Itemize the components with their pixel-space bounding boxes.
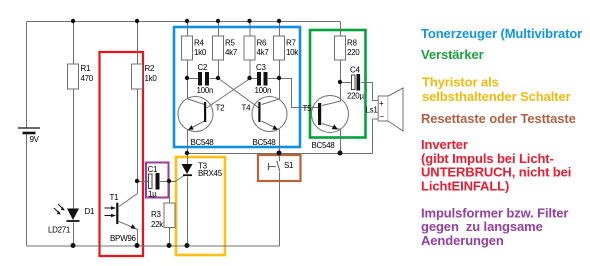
wire battery left branch [26,22,28,128]
wire R5 top [218,22,220,37]
svg-text:T4: T4 [242,104,252,113]
wire T2 emitter [188,121,205,154]
svg-text:selbsthaltender Schalter: selbsthaltender Schalter [422,89,571,104]
wire C1 left lead [138,181,150,183]
svg-text:100n: 100n [197,86,214,95]
wire battery to bottom rail [26,134,28,246]
svg-text:9V: 9V [30,135,40,144]
wire R8 top from rail corner [340,22,342,37]
svg-text:T5: T5 [303,104,313,113]
green highlight box (amplifier) [310,30,366,138]
phototransistor T1 BPW96 [105,193,137,243]
svg-text:220: 220 [347,48,360,57]
svg-text:S1: S1 [284,161,294,170]
svg-text:220µ: 220µ [347,92,364,101]
purple highlight box (pulse filter) [146,163,169,198]
wire T3 gate [170,176,184,182]
wire emitter rail y153 [188,153,373,155]
wire T1 collector [119,182,138,207]
svg-text:R7: R7 [286,39,296,48]
wire T5 emitter [322,124,341,154]
svg-text:BC548: BC548 [191,138,215,147]
red highlight box (light receiver) [100,52,144,256]
wire T3 cathode to bottom rail [187,177,189,247]
svg-text:1µ: 1µ [148,190,157,199]
svg-text:C3: C3 [256,63,266,72]
wire C2 right lead [210,78,219,80]
wire R2 to node C1/T1 [137,90,139,182]
svg-text:D1: D1 [85,207,95,216]
yellow highlight box (thyristor) [176,157,225,255]
svg-text:Thyristor als: Thyristor als [422,75,499,90]
orange highlight box (reset button) [258,155,301,181]
svg-text:4k7: 4k7 [225,48,238,57]
wire R7 top [279,22,281,37]
capacitor C4 220u electrolytic [347,66,364,101]
resistor R4 [182,36,207,60]
svg-text:10k: 10k [286,48,299,57]
svg-text:UNTERBRUCH, nicht bei: UNTERBRUCH, nicht bei [421,165,571,180]
svg-text:+: + [379,99,384,108]
svg-text:T1: T1 [110,193,120,202]
svg-text:R3: R3 [151,210,161,219]
wire bottom rail [27,245,280,247]
wire S1 top stub [279,154,281,162]
svg-text:C1: C1 [148,165,158,174]
resistor R1 [68,64,94,89]
resistor R3 [151,203,175,229]
wire top rail [27,21,341,23]
svg-text:R5: R5 [225,39,235,48]
wire T4 collector to T5 base [280,79,319,108]
wire R8 bottom to C4 node [340,61,342,83]
transistor T5 BC548 [303,96,349,151]
blue highlight box (multivibrator) [174,27,300,147]
svg-text:470: 470 [81,74,94,83]
wire speaker minus [373,119,379,154]
svg-text:R2: R2 [145,64,155,73]
pushbutton S1 [269,161,295,172]
svg-text:C2: C2 [198,63,208,72]
wire R3 top lead [169,182,171,204]
capacitor C3 100n [255,63,272,95]
svg-text:Inverter: Inverter [421,137,468,152]
resistor R7 [274,36,300,60]
svg-text:BPW96: BPW96 [110,234,136,243]
svg-text:R8: R8 [347,39,357,48]
wire C2 left lead [188,78,199,80]
transistor T4 BC548 [242,97,288,148]
svg-text:T2: T2 [216,104,226,113]
wire T2 emitter to thyristor anode [187,154,189,165]
wire R2 top [137,22,139,65]
resistor R6 [244,36,269,60]
svg-text:gegen zu langsame: gegen zu langsame [421,219,543,234]
svg-text:LD271: LD271 [48,226,71,235]
svg-text:LichtEINFALL): LichtEINFALL) [421,178,509,193]
svg-text:R4: R4 [194,39,204,48]
wire R4 bottom to T2 collector node [187,61,189,79]
wire S1 bottom to rail end [279,172,281,246]
LED D1 LD271 [48,204,95,235]
wire R1 to D1 [73,90,75,209]
wire T4 collector [262,79,280,105]
wire T1 emitter [119,222,138,247]
svg-text:Verstärker: Verstärker [421,47,484,62]
wire R7 bottom [279,61,281,79]
svg-text:R1: R1 [81,64,91,73]
wire C4 right lead to speaker plus [361,83,379,101]
wire C3 left lead [250,78,258,80]
wire C3 right lead [268,78,280,80]
battery B1 9V [18,128,40,144]
svg-text:4k7: 4k7 [257,48,270,57]
wire R4 top [187,22,189,37]
svg-text:BC548: BC548 [253,138,277,147]
transistor T2 BC548 [178,97,225,148]
svg-text:100n: 100n [255,86,272,95]
wire C1 right lead to node G [160,181,170,183]
capacitor C2 100n [197,63,214,95]
svg-text:22k: 22k [151,220,164,229]
wire D1 to bottom rail [73,223,75,247]
wire R3 bottom lead [169,228,171,246]
wire cross-coupling to T4 base [219,79,260,109]
svg-text:BC548: BC548 [312,141,336,150]
svg-text:Aenderungen: Aenderungen [421,233,504,248]
svg-text:−: − [380,113,385,122]
wire cross-coupling to T2 base [207,79,251,109]
resistor R5 [213,36,238,60]
wire C4 left lead [341,82,353,84]
svg-text:Resettaste oder Testtaste: Resettaste oder Testtaste [421,111,576,126]
svg-text:1k0: 1k0 [194,48,207,57]
wire R1 top [73,22,75,65]
svg-text:R6: R6 [257,39,267,48]
resistor R2 [132,64,158,89]
thyristor T3 BRX45 [182,162,223,178]
speaker Ls1 [366,88,404,131]
wire R6 top [249,22,251,37]
svg-text:Ls1: Ls1 [366,106,379,115]
resistor R8 [335,36,361,60]
wire T4 emitter [262,121,280,154]
svg-text:1k0: 1k0 [145,74,158,83]
capacitor C1 1u electrolytic [148,165,160,199]
svg-text:C4: C4 [350,66,360,75]
svg-text:Tonerzeuger (Multivibrator: Tonerzeuger (Multivibrator [421,26,582,41]
svg-text:BRX45: BRX45 [198,169,223,178]
wire T5 collector [322,83,341,106]
wire R5 bottom [218,61,220,79]
wire T2 collector [188,79,205,105]
wire R6 bottom [249,61,251,79]
